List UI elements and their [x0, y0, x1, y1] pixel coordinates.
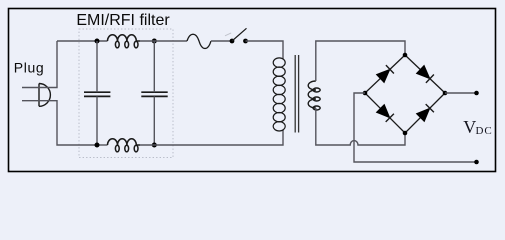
capacitor C2	[141, 92, 167, 96]
node bridge top vertex	[403, 53, 408, 58]
plug P1	[39, 84, 50, 107]
label VDC	[463, 117, 492, 137]
bridge edge bottom-left with diode D3	[365, 93, 405, 133]
svg-text:EMI/RFI filter: EMI/RFI filter	[76, 12, 170, 29]
svg-text:Plug: Plug	[14, 60, 44, 76]
svg-text:DC: DC	[476, 125, 493, 137]
bridge edge top-left with diode D1	[365, 55, 405, 93]
svg-text:V: V	[463, 117, 476, 137]
node bridge right vertex	[443, 91, 448, 96]
capacitor C1	[84, 92, 110, 96]
wire bridge - output	[354, 93, 476, 162]
fuse F1	[187, 34, 211, 48]
node junction dot top-left	[95, 39, 100, 44]
wire secondary top to bridge	[316, 41, 405, 81]
wire bottom rail to transformer primary bottom	[140, 130, 283, 146]
transformer T1 secondary winding	[308, 81, 320, 110]
transformer T1 core	[295, 55, 298, 133]
bridge edge top-right with diode D2	[405, 55, 445, 93]
wire secondary bottom to bridge (with hop)	[316, 108, 405, 145]
label Plug	[14, 60, 44, 76]
node junction dot bottom-right	[152, 143, 157, 148]
wire C2 leads	[153, 41, 155, 145]
label EMI/RFI filter	[76, 12, 170, 29]
wire C1 leads	[96, 41, 98, 145]
node bridge left vertex	[363, 91, 368, 96]
wire top rail middle	[140, 40, 187, 42]
EMI filter dashed box	[79, 29, 173, 158]
wire bridge + output	[445, 92, 476, 94]
border frame	[9, 9, 496, 172]
node output terminal -	[474, 160, 479, 165]
node output terminal +	[474, 91, 479, 96]
wire switch to transformer primary top	[246, 41, 284, 59]
wire top rail left	[57, 40, 108, 42]
wire bottom rail left	[97, 144, 108, 146]
inductor L2 (bottom)	[108, 139, 141, 152]
inductor L1 (top)	[108, 35, 141, 48]
transformer T1 primary winding	[273, 58, 285, 131]
wire fuse to switch	[211, 40, 232, 42]
node bridge bottom vertex	[403, 131, 408, 136]
plug top prong wire	[22, 41, 57, 88]
switch S1	[225, 28, 248, 43]
node junction dot top-right	[152, 39, 157, 44]
plug bottom prong wire	[22, 101, 97, 145]
node junction dot bottom-left	[95, 143, 100, 148]
bridge edge bottom-right with diode D4	[405, 93, 445, 133]
